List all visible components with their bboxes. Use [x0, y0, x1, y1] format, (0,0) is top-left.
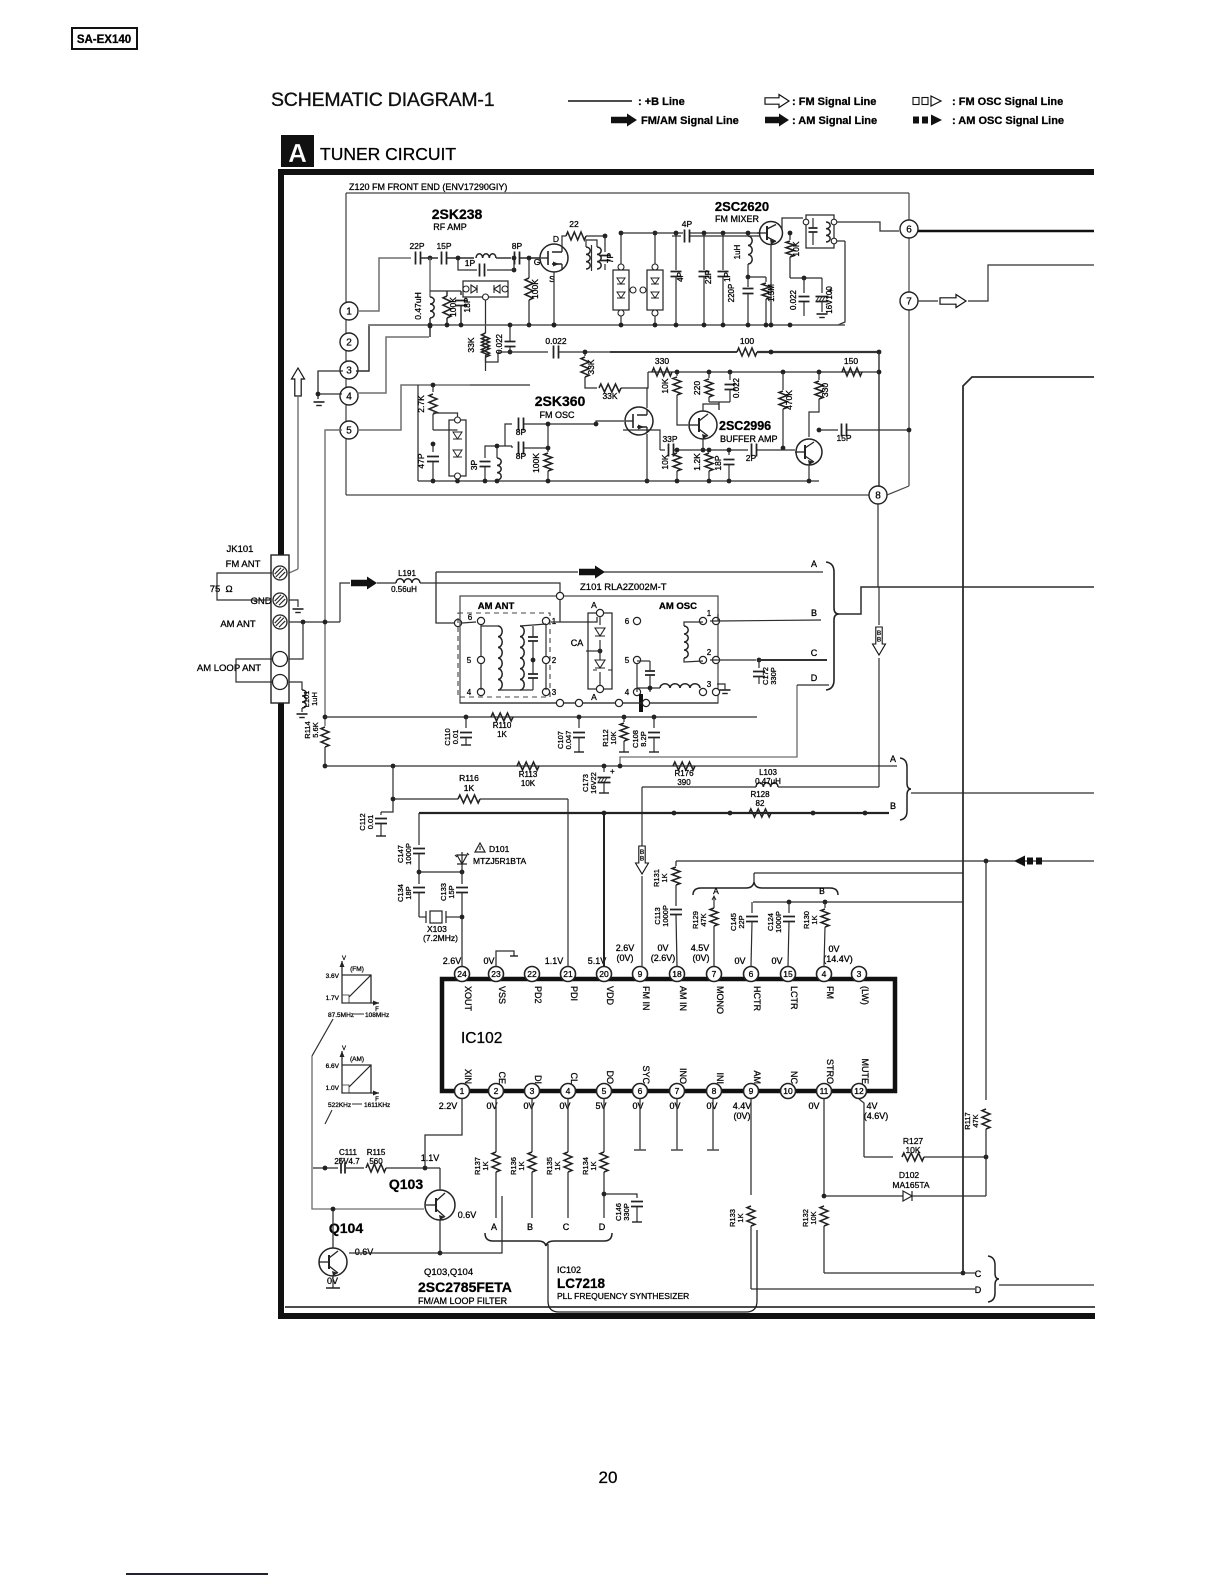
label 2SC2620 FM MIXER [715, 199, 769, 224]
IC102 pin 7 INO [670, 1068, 689, 1099]
svg-text:5: 5 [602, 1086, 607, 1096]
capacitor 18P e [713, 448, 735, 481]
svg-text:BUFFER AMP: BUFFER AMP [720, 434, 778, 444]
svg-text:0V: 0V [808, 1101, 819, 1111]
svg-text:1.7V: 1.7V [326, 995, 340, 1002]
label D fourth [975, 1285, 982, 1295]
diagonal stray line [312, 1019, 333, 1056]
inductor L191 [391, 569, 420, 594]
svg-text:7: 7 [675, 1086, 680, 1096]
svg-text:VSS: VSS [497, 986, 507, 1004]
svg-text:1K: 1K [517, 1161, 526, 1170]
svg-text:3: 3 [346, 366, 352, 377]
resistor 10K mixer [786, 231, 801, 278]
svg-text:1611KHz: 1611KHz [364, 1102, 390, 1109]
svg-text:DI: DI [533, 1075, 543, 1084]
svg-text:6: 6 [638, 1086, 643, 1096]
wire left vertical 313 [312, 1056, 424, 1209]
capacitor 47P [416, 442, 439, 481]
transistor Q104 [319, 1248, 347, 1276]
wire CD out [999, 1284, 1094, 1286]
wire bus 352 right [757, 350, 881, 355]
svg-text:8: 8 [712, 1086, 717, 1096]
wire pin1 to top [551, 592, 597, 622]
resistor 220 [692, 372, 713, 402]
node 4 [340, 387, 358, 405]
svg-text:22P: 22P [704, 270, 713, 284]
svg-text:2.6V: 2.6V [616, 943, 635, 953]
svg-text:330: 330 [655, 356, 669, 366]
wire top bus A-line [436, 571, 823, 573]
inductor L103 [755, 768, 879, 787]
svg-text:FM ANT: FM ANT [226, 559, 261, 570]
AM ANT dashed box [458, 601, 550, 697]
svg-text:2: 2 [707, 648, 712, 657]
IC102 pin 10 NC [781, 1071, 800, 1099]
svg-text:6: 6 [749, 969, 754, 979]
svg-text:: FM OSC Signal Line: : FM OSC Signal Line [952, 96, 1063, 108]
svg-text:: AM OSC Signal Line: : AM OSC Signal Line [952, 115, 1064, 127]
capacitor 0.022 buf [709, 372, 741, 410]
page number 20 [599, 1468, 618, 1487]
wire vertical 909 lower [877, 504, 879, 587]
svg-text:V: V [342, 956, 346, 962]
wire loop bracket [236, 659, 272, 682]
footer rule [126, 1573, 268, 1575]
capacitor 8P series [512, 241, 540, 265]
inductor osc [495, 444, 502, 480]
svg-text:1uH: 1uH [310, 692, 319, 706]
capacitor 2P [703, 444, 795, 464]
label AM LOOP ANT [197, 663, 261, 674]
svg-text:SCHEMATIC DIAGRAM-1: SCHEMATIC DIAGRAM-1 [271, 89, 494, 111]
label B second [890, 801, 896, 811]
svg-text:MTZJ5R1BTA: MTZJ5R1BTA [473, 856, 527, 866]
svg-text:FM MIXER: FM MIXER [715, 214, 759, 224]
wire Q103 out [440, 1196, 502, 1253]
wire pin2 C line [710, 658, 827, 663]
terminal loop 2 [273, 675, 288, 690]
AM ANT coil 1 [481, 625, 502, 690]
voltage 1.1V pin21 [545, 956, 564, 966]
varactor box osc [433, 413, 466, 479]
svg-text:4.4V: 4.4V [733, 1101, 752, 1111]
svg-text:390: 390 [677, 778, 691, 787]
svg-text:INI: INI [715, 1072, 725, 1084]
capacitor 22P vert [699, 233, 714, 325]
wire arrow to L191 [377, 582, 396, 584]
svg-text:(14.4V): (14.4V) [823, 954, 853, 964]
wire vertical 879 [877, 352, 882, 487]
svg-text:1: 1 [346, 307, 352, 318]
resistor 33K horiz [599, 372, 648, 401]
ground node area [314, 402, 325, 406]
svg-text:Q104: Q104 [329, 1220, 363, 1236]
svg-text:(LW): (LW) [860, 986, 870, 1005]
chain R135 [545, 1099, 572, 1232]
svg-text:10K: 10K [521, 779, 536, 788]
ground L101 [297, 714, 308, 718]
voltage 0V pin4b [559, 1101, 570, 1111]
svg-text:16V22: 16V22 [589, 772, 598, 794]
wire D line [751, 1288, 975, 1290]
svg-text:AM ANT: AM ANT [478, 601, 515, 612]
svg-text:22: 22 [569, 219, 579, 229]
svg-text:1K: 1K [810, 915, 819, 924]
wire Q104 base [331, 1207, 336, 1248]
wire AM to arrow [340, 583, 350, 622]
svg-text:RF AMP: RF AMP [433, 222, 467, 232]
IC102 pin 5 DO [597, 1071, 616, 1099]
svg-text:10K: 10K [609, 731, 618, 744]
wire node4 ground stub [316, 392, 342, 399]
wire C147 chain [418, 813, 420, 845]
wire 2996 emitter [701, 439, 706, 452]
capacitor 8P osc1 [505, 418, 598, 447]
svg-text:G: G [534, 257, 541, 267]
svg-text:AM: AM [752, 1071, 762, 1085]
wire mixer rail 233 [621, 231, 760, 236]
svg-text:0.47uH: 0.47uH [755, 777, 781, 786]
wire bus B 813 [419, 811, 889, 816]
svg-text:100: 100 [740, 336, 754, 346]
svg-text:(2.6V): (2.6V) [651, 953, 676, 963]
label GND [250, 596, 271, 607]
svg-text:0.01: 0.01 [366, 815, 375, 830]
label AM ANT [220, 619, 256, 630]
svg-text:22P: 22P [409, 241, 424, 251]
IC102 pin 20 VDD [597, 967, 616, 1006]
wire RF gate [527, 256, 540, 261]
svg-text:108MHz: 108MHz [365, 1012, 389, 1019]
resistor 330 buf2 [809, 372, 830, 437]
svg-text:3.6V: 3.6V [326, 973, 340, 980]
voltage 5V pin5b [595, 1101, 606, 1111]
svg-text:21: 21 [563, 969, 573, 979]
transistor buffer out [795, 439, 822, 465]
arrow AM signal mid [579, 566, 605, 579]
resistor R113 [517, 762, 539, 788]
schematic border left [278, 169, 284, 1319]
svg-text:MONO: MONO [715, 986, 725, 1014]
svg-text:D102: D102 [899, 1170, 920, 1180]
AM ANT caps [528, 626, 538, 690]
label A third [712, 886, 719, 905]
voltage 0V pin11b [808, 1101, 819, 1111]
brace AB second [900, 758, 911, 820]
AM OSC label [659, 601, 697, 612]
resistor 2.7K [416, 383, 437, 430]
AM ANT pins left [467, 613, 485, 697]
resistor R176 [673, 762, 695, 787]
resistor 100 [737, 336, 757, 356]
svg-text:Q103,Q104: Q103,Q104 [424, 1267, 473, 1278]
svg-text:18P: 18P [713, 455, 723, 470]
capacitor C124 [766, 902, 795, 966]
svg-text:0V: 0V [559, 1101, 570, 1111]
svg-text:8.2P: 8.2P [639, 731, 648, 746]
svg-text:33K: 33K [466, 337, 476, 352]
svg-text:5: 5 [467, 656, 472, 665]
front-end right edge lower [887, 310, 909, 495]
svg-text:2.7K: 2.7K [416, 395, 426, 413]
front-end box top edge [346, 192, 909, 194]
svg-text:: AM Signal Line: : AM Signal Line [792, 115, 877, 127]
svg-text:B: B [640, 856, 644, 863]
ground GND terminal [293, 609, 304, 613]
ground C172 [717, 684, 731, 694]
arrow AM signal L191 [351, 577, 377, 590]
IC102 pin 4 FM [817, 967, 836, 1000]
svg-text:20: 20 [599, 1468, 618, 1487]
resistor 10K e [660, 448, 681, 481]
svg-text:1000P: 1000P [661, 905, 670, 927]
core bar [639, 694, 643, 712]
varactor pair box RF [463, 281, 508, 333]
capacitor C145 [729, 902, 758, 966]
label IC102 [461, 1030, 502, 1047]
voltage pin12b [864, 1101, 889, 1121]
svg-text:23: 23 [491, 969, 501, 979]
resistor 1.5M [762, 277, 776, 325]
svg-text:9: 9 [749, 1086, 754, 1096]
svg-text:11: 11 [820, 1086, 829, 1096]
AM OSC pins right [699, 609, 719, 696]
svg-text:0.047: 0.047 [564, 731, 573, 750]
IC102 pin 21 PDI [561, 967, 580, 1002]
wire pin1 A line [710, 614, 718, 621]
capacitor 1P vert [718, 233, 733, 325]
svg-text:NC: NC [789, 1071, 799, 1084]
svg-text:R128: R128 [750, 790, 770, 799]
capacitor C107 [556, 717, 585, 752]
svg-text:TUNER CIRCUIT: TUNER CIRCUIT [320, 144, 456, 164]
wire vertical 0.47uH branch [429, 258, 431, 297]
svg-text:150: 150 [844, 356, 858, 366]
capacitor C172 [753, 660, 778, 685]
svg-text:IC102: IC102 [461, 1030, 502, 1047]
svg-text:10K: 10K [809, 1211, 818, 1224]
IC102 pin 9 AM [744, 1071, 763, 1099]
wire vertical 325 [323, 430, 342, 726]
wire D from Z101 [620, 685, 829, 766]
svg-text:1K: 1K [497, 730, 507, 739]
IC102 pin 24 XOUT [455, 967, 474, 1012]
wire FM ANT riser [289, 569, 298, 573]
wire bus 352 [610, 351, 737, 353]
node 5 [340, 421, 358, 439]
svg-text:33K: 33K [602, 391, 617, 401]
chain R133 [728, 1099, 755, 1289]
capacitor 0.022 series [498, 336, 610, 359]
svg-text:15P: 15P [836, 433, 851, 443]
IC102 pin 8 INI [707, 1072, 726, 1098]
svg-text:3: 3 [857, 969, 862, 979]
label FM ANT [226, 559, 261, 570]
wire L191 to Z101 [420, 583, 560, 596]
resistor R114 [303, 721, 329, 768]
svg-text:16V100: 16V100 [825, 286, 834, 314]
svg-text:2: 2 [552, 656, 557, 665]
svg-text:330: 330 [820, 383, 830, 397]
svg-text:10K: 10K [660, 378, 670, 393]
voltage pin9b [733, 1101, 752, 1121]
wire brace2 out [911, 792, 1094, 794]
wire mixer emitter rail [837, 241, 845, 325]
legend +B line [568, 96, 685, 108]
svg-text:(0V): (0V) [692, 953, 709, 963]
svg-text:3: 3 [552, 688, 557, 697]
wire bus 861 [676, 859, 1094, 864]
AM OSC cap [637, 661, 655, 692]
svg-text:D: D [599, 1222, 606, 1232]
inductor 0.47uH [413, 292, 434, 337]
front-end right edge upper [908, 193, 910, 220]
svg-text:GND: GND [250, 596, 271, 607]
svg-text:0V: 0V [483, 956, 494, 966]
wire FET drain [562, 236, 566, 247]
svg-text:C: C [811, 648, 818, 658]
svg-text:A: A [288, 138, 307, 168]
svg-text:82: 82 [756, 799, 765, 808]
node 2 [340, 333, 358, 351]
connector JK101 body [271, 555, 289, 703]
svg-text:33P: 33P [662, 434, 677, 444]
svg-text:(4.6V): (4.6V) [864, 1111, 889, 1121]
voltage pin7 [691, 943, 710, 963]
svg-text:R116: R116 [459, 773, 479, 783]
svg-text:8P: 8P [512, 241, 523, 251]
svg-text:Ω: Ω [225, 584, 232, 595]
svg-text:522KHz: 522KHz [328, 1102, 351, 1109]
svg-text:15P: 15P [436, 241, 451, 251]
wire AM ANT internal [481, 625, 546, 690]
svg-text:FM IN: FM IN [641, 986, 651, 1011]
svg-text:22P: 22P [737, 915, 746, 928]
terminal FM ANT [273, 566, 287, 580]
svg-text:CA: CA [571, 638, 584, 648]
svg-text:VDD: VDD [605, 986, 615, 1006]
wire BB drop to FMIN [636, 787, 649, 966]
svg-text:18P: 18P [462, 297, 472, 312]
wire vertical 963 [963, 377, 1094, 1273]
graph AM response [326, 1046, 380, 1103]
AM OSC coil [684, 622, 703, 662]
svg-text:C111: C111 [339, 1148, 357, 1157]
svg-text:18: 18 [672, 969, 682, 979]
arrow +B up [292, 368, 305, 569]
svg-text:10K: 10K [660, 454, 670, 469]
svg-text:7: 7 [712, 969, 717, 979]
IC102 pin 6 HCTR [744, 967, 763, 1012]
wire VDD drop [603, 813, 605, 966]
front-end box bottom edge [346, 494, 869, 496]
overbrace second AB [693, 873, 838, 895]
svg-text:5V: 5V [595, 1101, 606, 1111]
svg-text:330P: 330P [769, 667, 778, 685]
node 8 [869, 486, 887, 504]
arrow FM signal out [940, 295, 966, 308]
svg-text:2: 2 [346, 338, 352, 349]
chain R132 [801, 1099, 828, 1273]
varactor link circles [630, 287, 646, 293]
svg-text:IC102: IC102 [557, 1265, 581, 1275]
svg-text:6: 6 [468, 613, 473, 622]
ground pin7b [671, 1099, 683, 1150]
IF can mixer [803, 215, 837, 248]
svg-text:CE: CE [497, 1071, 507, 1084]
svg-text:1000P: 1000P [404, 843, 413, 865]
voltage pin18 [651, 943, 676, 963]
voltage 0V pin15 [771, 956, 782, 966]
svg-text:15: 15 [783, 969, 793, 979]
AM ANT coil 2 [520, 624, 546, 690]
node 3 [340, 361, 358, 379]
svg-text:AM LOOP ANT: AM LOOP ANT [197, 663, 261, 674]
label D first [811, 673, 818, 683]
svg-text:4: 4 [346, 392, 352, 403]
svg-text:4.5V: 4.5V [691, 943, 710, 953]
IC102 pin 4 CL [561, 1072, 580, 1098]
wire bus 372 [648, 370, 879, 375]
capacitor 4P vert [671, 233, 686, 325]
capacitor 7P [600, 247, 616, 270]
svg-text:0V: 0V [706, 1101, 717, 1111]
wire osc fet source [645, 434, 650, 483]
svg-text:47P: 47P [416, 453, 426, 468]
svg-text:3: 3 [530, 1086, 535, 1096]
IC102 pin 18 AM IN [670, 967, 689, 1012]
IC102 pin 2 CE [489, 1071, 508, 1098]
resistor 100K bias [430, 291, 458, 325]
svg-text:L103: L103 [759, 768, 777, 777]
svg-text:0V: 0V [771, 956, 782, 966]
chain R131 C113 [675, 861, 677, 866]
node 6 [900, 220, 918, 238]
wire bus 766 [325, 764, 897, 769]
LC7218 outline [548, 1230, 757, 1312]
transistor 2SK360 FET [596, 407, 653, 435]
terminal GND [273, 593, 287, 607]
svg-text:1000P: 1000P [774, 911, 783, 933]
capacitor C108 [631, 717, 660, 752]
label Q103 [389, 1176, 423, 1192]
terminal loop 1 [273, 652, 288, 667]
wire FM ANT 75ohm [217, 573, 272, 600]
node 1 [340, 302, 358, 320]
svg-text:B: B [890, 801, 896, 811]
svg-text:2: 2 [494, 1086, 499, 1096]
label A second [890, 754, 896, 764]
voltage 5.1V pin20 [588, 956, 607, 966]
voltage 0.6V Q103 [458, 1210, 477, 1220]
svg-text:R113: R113 [519, 770, 538, 779]
IC IC102 outline [442, 979, 895, 1091]
capacitor 1P [465, 258, 485, 277]
wire 873 line [754, 872, 963, 874]
svg-text:PLL FREQUENCY SYNTHESIZER: PLL FREQUENCY SYNTHESIZER [557, 1291, 689, 1301]
capacitor 0.022 mixer [789, 276, 822, 316]
svg-text:0.022: 0.022 [789, 289, 798, 310]
label B third [819, 886, 825, 896]
wire brace to bus587 [839, 587, 1094, 614]
wire node3 riser [356, 326, 369, 371]
label 2SC2996 BUFFER AMP [719, 419, 778, 444]
svg-text:0V: 0V [632, 1101, 643, 1111]
wire 1P branch [456, 256, 517, 273]
resistor R112 [601, 717, 629, 752]
svg-text:A: A [811, 559, 817, 569]
